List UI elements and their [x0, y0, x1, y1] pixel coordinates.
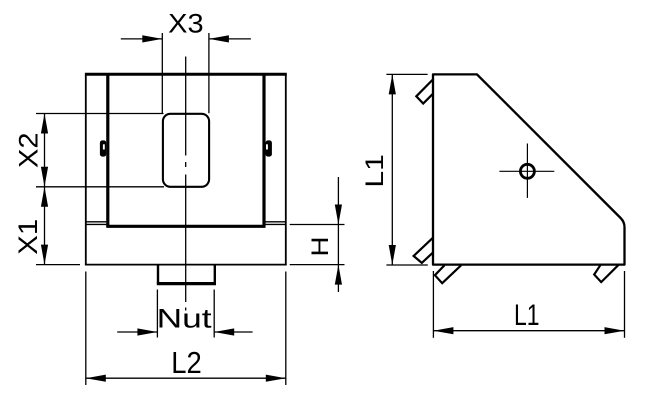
svg-text:L1: L1 [514, 299, 540, 332]
svg-text:H: H [307, 237, 334, 257]
svg-text:X3: X3 [168, 8, 204, 38]
svg-text:L1: L1 [361, 154, 389, 188]
svg-text:X1: X1 [13, 219, 43, 255]
svg-text:L2: L2 [171, 345, 202, 380]
svg-text:Nut: Nut [157, 304, 213, 334]
svg-text:X2: X2 [14, 133, 44, 169]
